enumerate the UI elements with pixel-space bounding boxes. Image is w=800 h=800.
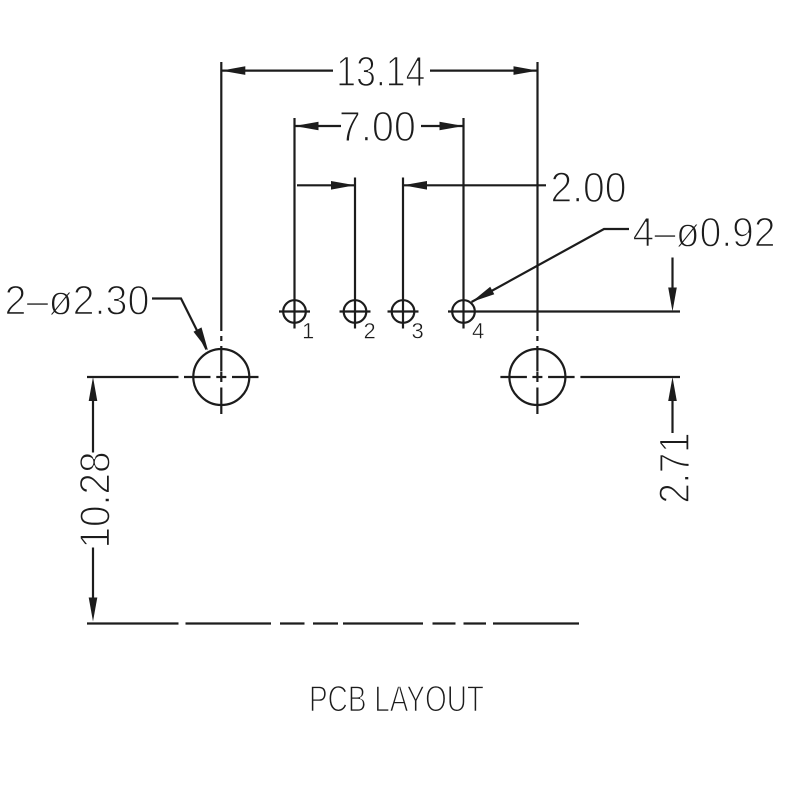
svg-text:7.00: 7.00: [339, 103, 416, 151]
svg-text:4–ø0.92: 4–ø0.92: [633, 208, 776, 255]
dimension 7.00 left arrowhead: [295, 122, 319, 131]
dimension 13.14 right arrowhead: [514, 66, 538, 75]
extension line right (x=537.5): [536, 62, 538, 331]
mounting hole right circle: [509, 349, 565, 405]
mounting hole left circle: [193, 349, 249, 405]
left hole centerline horizontal (with 10.28 extension): [87, 376, 179, 378]
dimension 13.14 line right segment: [430, 69, 538, 71]
svg-text:2: 2: [364, 319, 376, 344]
dimension 2.00 left line: [297, 184, 355, 186]
leader arrowhead at pin 4: [472, 287, 495, 302]
dimension 13.14 left arrowhead: [221, 66, 245, 75]
pin hole 2 circle: [344, 300, 367, 323]
svg-text:2.00: 2.00: [551, 164, 627, 212]
dimension 7.00 right arrowhead: [440, 122, 464, 131]
dimension 13.14 line left segment: [221, 69, 333, 71]
svg-text:2.71: 2.71: [651, 433, 699, 504]
dimension 2.71 vertical line lower segment: [671, 400, 673, 433]
leader line from 4-dia0.92 label: [472, 229, 630, 302]
right hole centerline horizontal (with 2.71 extension to the right): [500, 376, 527, 378]
leader line from 2-dia2.30 label: [152, 299, 207, 350]
leader arrowhead at left mounting hole: [194, 327, 209, 350]
dimension 10.28 vertical line upper segment: [92, 400, 94, 453]
svg-text:3: 3: [412, 319, 424, 344]
svg-text:PCB LAYOUT: PCB LAYOUT: [309, 677, 484, 719]
dimension 7.00 line left segment: [295, 125, 342, 127]
extension line pin2 (x=355): [354, 178, 356, 329]
dimension 10.28 bottom arrowhead pointing down: [89, 598, 98, 622]
board edge dashed line: [87, 622, 179, 624]
dimension 2.00 right line: [403, 184, 546, 186]
pin hole 3 circle: [392, 300, 415, 323]
extension line pin4 (x=463.5): [462, 118, 464, 329]
dimension 2.71 vertical line upper segment: [671, 258, 673, 290]
pin hole 4 circle: [452, 300, 475, 323]
pin 3 horizontal centerline: [388, 310, 419, 312]
dimension 2.71 up arrowhead at hole centerline: [668, 377, 677, 401]
dimension 2.00 arrowhead pointing right at pin2 line: [331, 181, 355, 190]
right hole centerline vertical dashes: [536, 336, 538, 341]
extension line pin3 (x=403): [402, 178, 404, 329]
svg-text:10.28: 10.28: [72, 452, 120, 549]
pin 1 horizontal centerline: [279, 310, 310, 312]
dimension 10.28 vertical line lower segment: [92, 548, 94, 600]
svg-text:4: 4: [472, 319, 484, 344]
dimension 7.00 line right segment: [421, 125, 464, 127]
dimension 10.28 top arrowhead pointing up: [89, 377, 98, 401]
dimension 2.71 down arrowhead at pin row line: [668, 288, 677, 312]
pin 4 horizontal centerline extended right as 2.71 extension line: [448, 310, 680, 312]
svg-text:1: 1: [302, 319, 314, 344]
pin hole 1 circle: [283, 300, 306, 323]
dimension 2.00 arrowhead pointing left at pin3 line: [403, 181, 427, 190]
svg-text:13.14: 13.14: [336, 48, 425, 96]
extension line pin1 (x=294.5): [293, 118, 295, 329]
extension line left (x=221.3): [220, 62, 222, 331]
svg-text:2–ø2.30: 2–ø2.30: [5, 276, 150, 323]
pin 2 horizontal centerline: [340, 310, 371, 312]
left hole centerline vertical dashes: [220, 336, 222, 341]
